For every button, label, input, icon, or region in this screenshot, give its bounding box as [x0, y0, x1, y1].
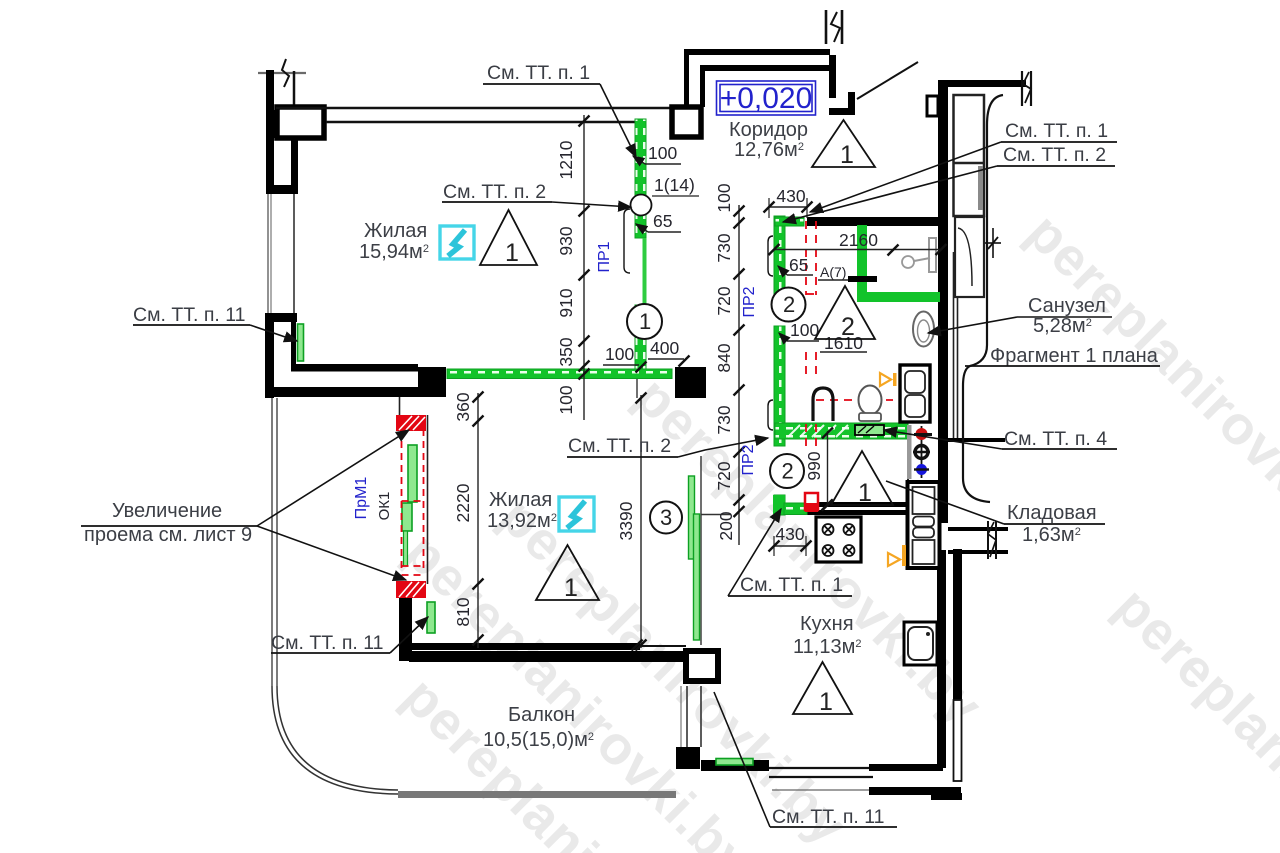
- svg-text:730: 730: [714, 233, 734, 262]
- duct gray riser: [978, 166, 983, 210]
- green wall: kitchen top-left square: [773, 495, 785, 514]
- svg-text:100: 100: [605, 344, 634, 364]
- svg-text:730: 730: [714, 405, 734, 434]
- kitchen bottom window lines: [769, 767, 873, 769]
- green window bar 2: [402, 503, 412, 531]
- green window bar 1: [408, 445, 417, 502]
- svg-text:2: 2: [782, 459, 794, 484]
- red hatch block window bottom: [396, 581, 426, 598]
- dim 430 bottom: [774, 545, 806, 547]
- corridor right wall: [829, 55, 836, 98]
- lightning box 1: [440, 226, 474, 259]
- hall bottom thin line: [640, 645, 686, 647]
- thin line below green band: [636, 374, 638, 398]
- svg-text:10,5(15,0)м2: 10,5(15,0)м2: [483, 729, 594, 751]
- closet box below duct: [955, 217, 984, 297]
- pier balcony door: [676, 747, 700, 769]
- kitchen sink: [904, 622, 937, 665]
- svg-text:ПР1: ПР1: [596, 241, 613, 272]
- svg-text:11,13м2: 11,13м2: [793, 636, 861, 658]
- svg-text:990: 990: [804, 451, 824, 480]
- svg-text:См. ТТ. п. 1: См. ТТ. п. 1: [1005, 120, 1108, 142]
- svg-text:ОК1: ОК1: [376, 492, 393, 521]
- svg-text:350: 350: [556, 337, 576, 366]
- svg-text:430: 430: [776, 186, 805, 206]
- kitchen right outer wall: [953, 549, 962, 700]
- wall: thin double lines left side middle: [267, 194, 269, 314]
- wall: inner face vertical: [291, 322, 296, 367]
- toilet upper bathroom: [913, 312, 934, 347]
- svg-text:+0,020: +0,020: [720, 82, 813, 115]
- triangle 2 bathroom: [815, 286, 875, 339]
- svg-text:840: 840: [714, 343, 734, 372]
- triangle 1 kitchen: [793, 662, 852, 714]
- svg-text:100: 100: [556, 385, 576, 414]
- svg-text:2: 2: [841, 313, 855, 341]
- orange mark bath: [880, 373, 891, 386]
- wall: crossbar: [274, 185, 292, 194]
- corridor left wall inner: [700, 65, 705, 107]
- kitchen right wall inner lower: [937, 550, 946, 768]
- svg-text:1: 1: [819, 688, 833, 716]
- gray pipe riser: [907, 425, 912, 479]
- break symbol top-right: [1021, 71, 1023, 106]
- wall: left mid thick bar: [265, 313, 297, 322]
- fragment brace: [963, 95, 1003, 502]
- wall: left vertical thick: [265, 322, 274, 398]
- svg-text:Кухня: Кухня: [800, 613, 854, 635]
- triangle 1 room2: [536, 545, 599, 600]
- bottom-right corner block: [869, 787, 961, 795]
- wall below window: [399, 598, 412, 661]
- kitchen right wall inner upper: [937, 500, 948, 523]
- svg-text:3390: 3390: [616, 501, 636, 540]
- kitchen bottom-right wall bar: [869, 764, 943, 771]
- top-right exterior wall: [938, 80, 1026, 87]
- svg-text:100: 100: [714, 183, 734, 212]
- svg-text:1: 1: [840, 141, 854, 169]
- svg-text:См. ТТ. п. 1: См. ТТ. п. 1: [740, 574, 843, 596]
- right chain line: [738, 205, 740, 545]
- svg-text:Жилая: Жилая: [364, 220, 427, 242]
- wall stub down right of kladovaya top: [948, 438, 1005, 442]
- dim 430 top: [769, 206, 807, 208]
- svg-text:Коридор: Коридор: [729, 119, 808, 141]
- white hatches on mid band: [788, 425, 848, 437]
- axis marker right of closet: [992, 228, 994, 258]
- thin double wall below duct: [953, 252, 955, 438]
- svg-text:См. ТТ. п. 2: См. ТТ. п. 2: [443, 181, 546, 203]
- corridor top wall inner: [700, 65, 830, 71]
- balcony divider thin lines: [686, 686, 688, 747]
- wall: stub left of pier: [266, 110, 275, 138]
- svg-text:ПрМ1: ПрМ1: [353, 477, 370, 520]
- bathroom top wall: [807, 217, 938, 226]
- pier at green band right end: [675, 367, 706, 398]
- svg-text:Балкон: Балкон: [508, 704, 575, 726]
- svg-text:2: 2: [783, 292, 795, 317]
- bottom wall lower bar: [409, 651, 705, 662]
- wall: left exterior vertical bar upper: [266, 70, 274, 110]
- pier top-left: [277, 107, 324, 138]
- svg-text:2160: 2160: [839, 230, 878, 250]
- elevation box +0,020: [717, 81, 816, 115]
- red dashed window frame: [402, 429, 424, 575]
- kitchen tall cabinet column: [908, 482, 940, 568]
- svg-text:Увеличение: Увеличение: [112, 500, 222, 522]
- circle 1 hall: [627, 304, 662, 339]
- svg-text:А(7): А(7): [820, 264, 846, 280]
- svg-text:910: 910: [556, 288, 576, 317]
- green window thin bar: [404, 531, 408, 566]
- svg-text:430: 430: [775, 524, 804, 544]
- svg-text:1,63м2: 1,63м2: [1022, 524, 1081, 546]
- circle 2 lower: [770, 454, 804, 488]
- svg-text:3: 3: [660, 505, 672, 530]
- entrance door leaf: [857, 62, 918, 99]
- triangle 1 room1: [480, 210, 537, 265]
- pier corridor left: [672, 107, 701, 137]
- wall: thin line right of bar: [293, 71, 296, 106]
- wall: top double thin wall of room 15,94: [276, 107, 672, 110]
- washbasin lower bathroom: [813, 388, 833, 421]
- green thin hall bars: [689, 476, 695, 559]
- green wall: top bar at bathroom door: [775, 217, 804, 226]
- svg-text:1: 1: [505, 239, 519, 267]
- corridor left wall outer: [684, 49, 689, 107]
- svg-text:2220: 2220: [453, 483, 473, 522]
- green wall: shower vertical: [857, 225, 867, 302]
- green wall: shower horizontal: [857, 292, 940, 302]
- kladovaya right wall horizontal double: [948, 527, 1008, 531]
- triangle 1 corridor: [812, 120, 875, 167]
- svg-text:1: 1: [639, 309, 651, 334]
- break symbol kladovaya wall: [987, 521, 989, 559]
- svg-text:100: 100: [790, 320, 819, 340]
- opening bracket ПР2 upper: [768, 236, 773, 276]
- lightning box 2: [559, 497, 594, 531]
- svg-text:См. ТТ. п. 11: См. ТТ. п. 11: [133, 304, 245, 326]
- svg-text:720: 720: [714, 461, 734, 490]
- svg-text:1: 1: [858, 479, 872, 507]
- dim 2160: [774, 249, 941, 251]
- bottom wall of room 13,92 upper bar: [408, 643, 640, 650]
- svg-text:720: 720: [714, 286, 734, 315]
- window ПрМ1 side thin lines: [399, 397, 401, 431]
- orange mark kitchen: [888, 553, 900, 566]
- valve black: [915, 446, 928, 459]
- entrance step bottom bar: [829, 108, 855, 115]
- green mark on left wall (См.ТТ.п.11): [298, 324, 304, 361]
- green wall: mid band between bathroom and toilet: [775, 423, 908, 439]
- svg-text:1210: 1210: [556, 140, 576, 179]
- wall ticks: [822, 500, 833, 511]
- valve red: [921, 426, 923, 478]
- balcony front gray edge: [398, 791, 676, 798]
- opening bracket ПР1: [624, 209, 630, 273]
- left chain line: [583, 115, 585, 420]
- svg-text:200: 200: [716, 511, 736, 540]
- shower head symbol: [902, 256, 914, 268]
- hall thin boundary line: [700, 456, 702, 645]
- pier bottom hall: [686, 651, 718, 681]
- washing machine: [900, 365, 930, 422]
- svg-text:См. ТТ. п. 2: См. ТТ. п. 2: [1003, 144, 1106, 166]
- window chain line: [477, 393, 479, 648]
- svg-text:65: 65: [653, 211, 672, 231]
- svg-text:100: 100: [648, 143, 677, 163]
- wall: vertical bars below pier: [266, 138, 274, 194]
- wall break symbol top-left: [258, 72, 306, 74]
- wall: left thin double lines lower: [271, 398, 273, 686]
- kitchen top wall double: [816, 502, 908, 507]
- green wall: hall vertical band upper: [635, 119, 646, 238]
- entrance step right stub: [848, 92, 855, 115]
- svg-text:360: 360: [453, 392, 473, 421]
- svg-text:15,94м2: 15,94м2: [359, 241, 429, 263]
- green wall: long horizontal band: [447, 369, 672, 379]
- svg-text:ПР2: ПР2: [740, 444, 757, 475]
- svg-text:13,92м2: 13,92м2: [487, 510, 557, 532]
- wall notch left of duct: [927, 96, 938, 116]
- green wall: hall vertical band lower: [635, 305, 646, 374]
- svg-text:930: 930: [556, 226, 576, 255]
- entrance break symbol: [825, 10, 828, 44]
- red hatch block window top: [396, 415, 426, 431]
- circle 3 hall: [650, 502, 682, 534]
- circle 1(14): [631, 195, 652, 216]
- opening bracket ПР2 lower: [768, 400, 773, 430]
- svg-text:5,28м2: 5,28м2: [1033, 315, 1092, 337]
- svg-text:Фрагмент 1 плана: Фрагмент 1 плана: [990, 345, 1159, 367]
- lintel marker on green band: [855, 425, 884, 435]
- wall: horizontal wall y387: [268, 387, 418, 397]
- corridor top wall outer: [684, 49, 830, 55]
- green wall: thin middle (opening ПР1): [643, 238, 647, 305]
- svg-text:См. ТТ. п. 4: См. ТТ. п. 4: [1004, 428, 1107, 450]
- wall: horizontal wall y364: [291, 364, 418, 372]
- balcony curve double line: [272, 686, 398, 794]
- svg-text:Жилая: Жилая: [489, 489, 552, 511]
- svg-text:См. ТТ. п. 2: См. ТТ. п. 2: [568, 435, 671, 457]
- toilet lower bathroom: [859, 386, 882, 415]
- svg-text:См. ТТ. п. 11: См. ТТ. п. 11: [772, 806, 884, 828]
- valve blue: [916, 464, 927, 475]
- dim 990: [827, 431, 829, 507]
- green sill balcony door: [716, 759, 753, 766]
- svg-text:Санузел: Санузел: [1028, 295, 1106, 317]
- right inner wall vertical: [938, 87, 948, 500]
- svg-text:1(14): 1(14): [654, 175, 695, 195]
- green wall: bathroom left middle: [774, 326, 785, 446]
- red post at kitchen wall: [805, 493, 818, 510]
- circle 2 upper: [772, 288, 806, 322]
- green bar above bottom wall: [427, 602, 435, 633]
- green wall: bathroom left lower: [774, 495, 785, 515]
- svg-text:810: 810: [453, 597, 473, 626]
- wall between toilet room and column: [907, 439, 909, 484]
- kitchen bottom-left wall bar: [701, 760, 769, 771]
- svg-text:400: 400: [650, 338, 679, 358]
- svg-text:Кладовая: Кладовая: [1007, 502, 1097, 524]
- middle chain 3390: [640, 395, 642, 648]
- red dashed old wall bathroom upper: [806, 221, 893, 446]
- svg-text:См. ТТ. п. 11: См. ТТ. п. 11: [271, 632, 383, 654]
- svg-text:12,76м2: 12,76м2: [734, 139, 804, 161]
- svg-text:ПР2: ПР2: [741, 286, 758, 317]
- green wall: bathroom left upper: [774, 216, 785, 306]
- svg-text:См. ТТ. п. 1: См. ТТ. п. 1: [487, 62, 590, 84]
- triangle 1 toilet room: [831, 451, 893, 505]
- svg-text:проема см. лист 9: проема см. лист 9: [84, 524, 252, 546]
- stove: [816, 517, 861, 562]
- duct shaft rectangle: [954, 95, 985, 216]
- green wall: kitchen top band: [784, 503, 807, 515]
- svg-text:1: 1: [564, 574, 578, 602]
- svg-text:65: 65: [789, 255, 808, 275]
- pier between walls x418: [418, 367, 446, 397]
